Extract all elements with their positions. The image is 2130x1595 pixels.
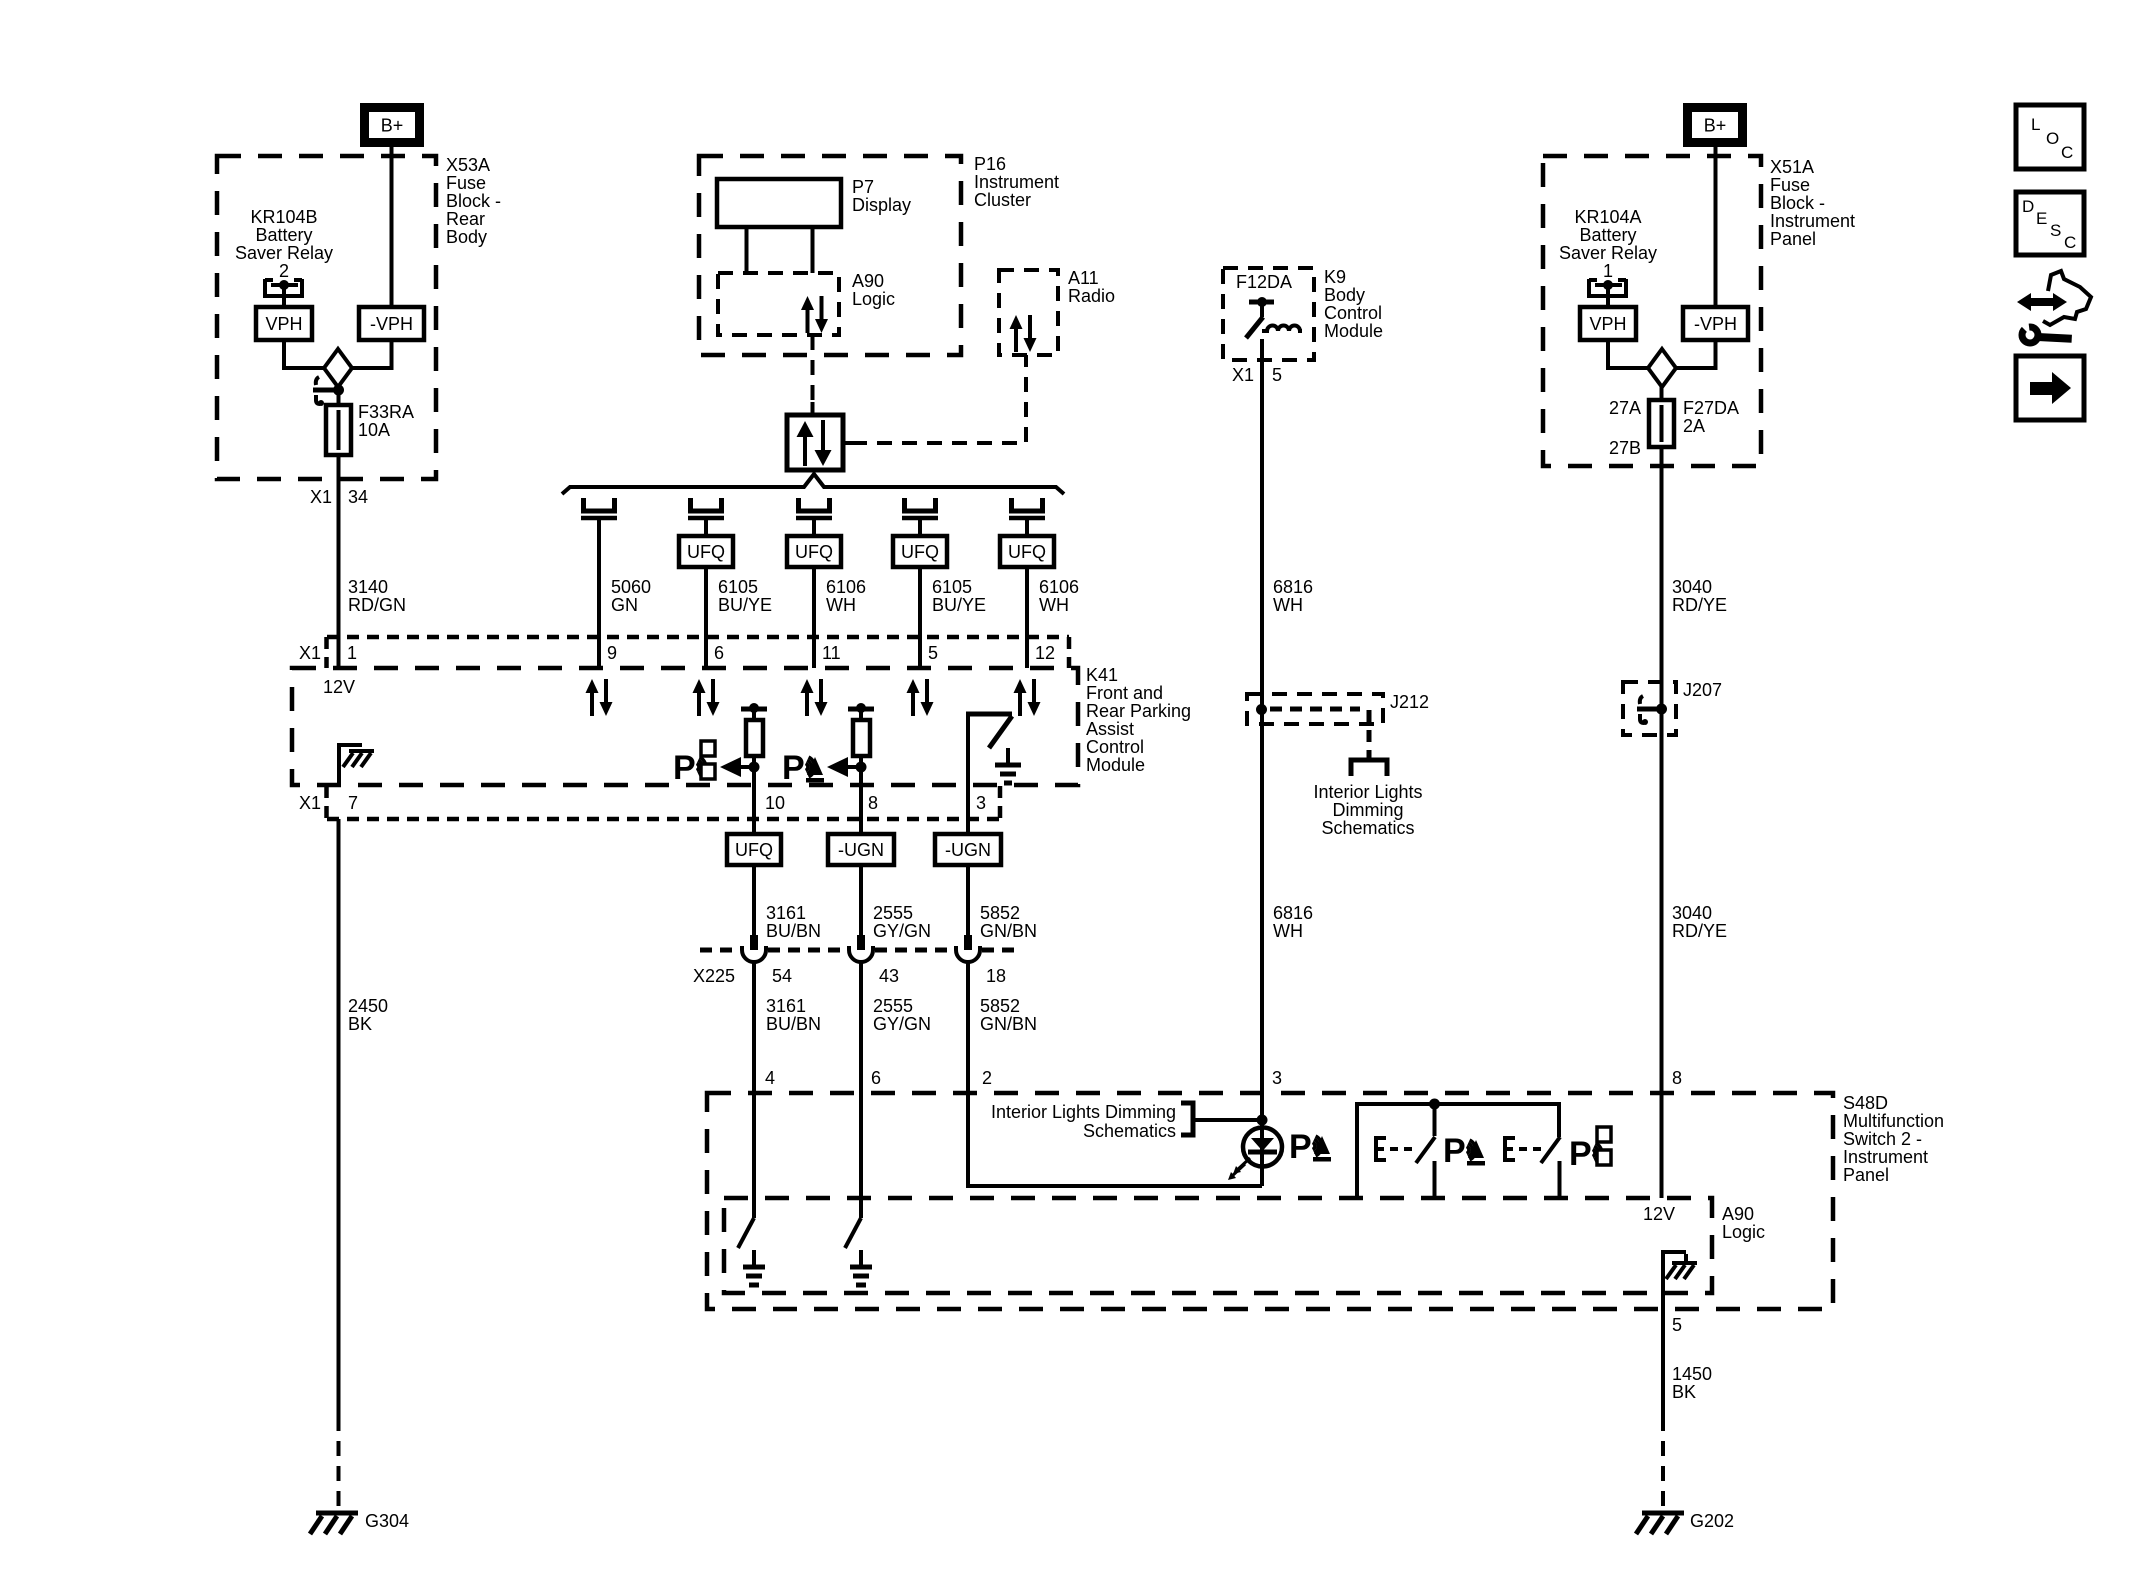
ground G202	[1642, 1511, 1684, 1516]
internal ground wire K41 pin 7	[339, 745, 362, 786]
serial arrows in K41 below pin at x=599	[590, 690, 594, 716]
svg-text:2555: 2555	[873, 903, 913, 923]
twisted-pair box UFQ (top row 1)	[679, 536, 733, 567]
svg-text:54: 54	[772, 966, 792, 986]
svg-text:UFQ: UFQ	[1008, 542, 1046, 562]
svg-text:Control: Control	[1086, 737, 1144, 757]
svg-text:UFQ: UFQ	[901, 542, 939, 562]
svg-text:P: P	[1443, 1132, 1466, 1170]
svg-text:A11: A11	[1068, 268, 1099, 288]
LED light arrows	[1236, 1158, 1250, 1171]
wire X225-43 to S48D pin 6	[859, 961, 863, 1093]
wire VPH to diamond (left)	[284, 340, 324, 368]
svg-text:WH: WH	[1273, 921, 1303, 941]
wire B+ to -VPH (left)	[390, 142, 394, 307]
body control module K9 dashed box F12DA	[1223, 268, 1314, 360]
display P7 box	[717, 179, 841, 227]
svg-text:F33RA: F33RA	[358, 402, 414, 422]
svg-text:Rear: Rear	[446, 209, 485, 229]
icon box LOC	[2016, 105, 2084, 169]
chassis ground symbol in S48D A90	[1684, 1254, 1688, 1262]
logic block A90 dashed box (in P16)	[718, 273, 839, 335]
svg-text:-UGN: -UGN	[945, 840, 991, 860]
icon box DESC	[2016, 192, 2084, 255]
svg-text:10A: 10A	[358, 420, 390, 440]
svg-text:Instrument: Instrument	[1843, 1147, 1928, 1167]
svg-text:BU/BN: BU/BN	[766, 1014, 821, 1034]
svg-text:9: 9	[607, 643, 617, 663]
svg-text:K9: K9	[1324, 267, 1346, 287]
svg-text:X51A: X51A	[1770, 157, 1814, 177]
svg-text:RD/YE: RD/YE	[1672, 921, 1727, 941]
relay contact box VPH (left)	[256, 307, 312, 340]
svg-text:F27DA: F27DA	[1683, 398, 1739, 418]
svg-text:34: 34	[348, 487, 368, 507]
svg-text:-VPH: -VPH	[370, 314, 413, 334]
serial arrows in K41 below pin at x=920	[911, 690, 915, 716]
sensor resistor branch 2 (K41)	[848, 707, 874, 712]
serial arrows in K41 below pin at x=1027	[1018, 690, 1022, 716]
svg-text:3161: 3161	[766, 903, 806, 923]
svg-text:8: 8	[868, 793, 878, 813]
wire VPH to diamond (right)	[1608, 340, 1648, 368]
fuse F27DA 2A	[1660, 400, 1664, 466]
svg-text:L: L	[2031, 115, 2040, 134]
svg-text:J212: J212	[1390, 692, 1429, 712]
svg-text:2555: 2555	[873, 996, 913, 1016]
bus drop connector above pin 5	[905, 498, 936, 511]
svg-text:6816: 6816	[1273, 577, 1313, 597]
serial arrows in K41 below pin at x=814	[805, 690, 809, 716]
svg-text:Logic: Logic	[1722, 1222, 1765, 1242]
svg-text:18: 18	[986, 966, 1006, 986]
svg-text:Panel: Panel	[1843, 1165, 1889, 1185]
signal arrow to rear sensors	[827, 757, 848, 777]
wire UFQ to K41 pin	[704, 567, 708, 668]
svg-text:BU/YE: BU/YE	[932, 595, 986, 615]
svg-text:Saver Relay: Saver Relay	[1559, 243, 1657, 263]
svg-text:S48D: S48D	[1843, 1093, 1888, 1113]
fuse F33RA 10A	[337, 405, 341, 480]
svg-text:KR104B: KR104B	[250, 207, 317, 227]
svg-text:Fuse: Fuse	[1770, 175, 1810, 195]
svg-text:Multifunction: Multifunction	[1843, 1111, 1944, 1131]
twisted-pair box UFQ (top row 2)	[787, 536, 841, 567]
switch cell 2 (park assist, squares)	[1541, 1137, 1560, 1163]
svg-text:P: P	[673, 749, 696, 787]
circuit breaker F12DA symbol	[1249, 300, 1274, 305]
diamond junction (left fuse block)	[324, 349, 352, 387]
svg-text:7: 7	[348, 793, 358, 813]
svg-text:Cluster: Cluster	[974, 190, 1031, 210]
svg-text:3: 3	[976, 793, 986, 813]
svg-text:Control: Control	[1324, 303, 1382, 323]
svg-text:Radio: Radio	[1068, 286, 1115, 306]
disable switch branch (K41 pin 3)	[966, 712, 1012, 717]
svg-text:F12DA: F12DA	[1236, 272, 1292, 292]
svg-text:Battery: Battery	[255, 225, 312, 245]
power terminal B+ (right)	[1688, 108, 1743, 143]
svg-text:6105: 6105	[718, 577, 758, 597]
svg-text:27B: 27B	[1609, 438, 1641, 458]
ground G304	[316, 1511, 358, 1516]
svg-text:J207: J207	[1683, 680, 1722, 700]
svg-text:2A: 2A	[1683, 416, 1705, 436]
relay coil KR104B	[265, 279, 302, 296]
svg-text:-UGN: -UGN	[838, 840, 884, 860]
svg-text:1: 1	[347, 643, 357, 663]
svg-text:10: 10	[765, 793, 785, 813]
wire -VPH to diamond (left)	[352, 340, 392, 368]
dashed branch from J212	[1367, 710, 1372, 752]
svg-text:Body: Body	[1324, 285, 1365, 305]
off-page fork to Interior Lights Dimming Schematics	[1367, 750, 1372, 761]
wire UFQ to X225	[752, 865, 756, 935]
svg-text:Dimming: Dimming	[1332, 800, 1403, 820]
wire drop to UFQ (pin 6)	[704, 519, 708, 536]
svg-text:1: 1	[1603, 261, 1613, 281]
svg-text:X225: X225	[693, 966, 735, 986]
inline connector X225 pin 18	[964, 935, 972, 950]
wire pin8 to -UGN a	[859, 786, 863, 834]
radio A11 dashed box	[999, 270, 1058, 355]
svg-text:D: D	[2022, 197, 2034, 216]
svg-text:Panel: Panel	[1770, 229, 1816, 249]
svg-text:K41: K41	[1086, 665, 1118, 685]
svg-text:KR104A: KR104A	[1574, 207, 1641, 227]
connector band X1 (K41 top)	[327, 635, 1069, 640]
wire 6816 WH upper	[1260, 360, 1264, 709]
svg-text:BU/BN: BU/BN	[766, 921, 821, 941]
wire 1450 BK	[1661, 1309, 1665, 1416]
switch cell 1 (park assist disable, triangle)	[1433, 1104, 1437, 1136]
dashed wire to G304	[337, 1416, 341, 1513]
svg-text:P: P	[1289, 1128, 1312, 1166]
wire 3140 RD/GN	[337, 455, 341, 668]
svg-text:6816: 6816	[1273, 903, 1313, 923]
svg-text:2: 2	[279, 261, 289, 281]
svg-text:X1: X1	[299, 643, 321, 663]
svg-text:Module: Module	[1324, 321, 1383, 341]
wire drop to UFQ (pin 5)	[918, 519, 922, 536]
svg-text:VPH: VPH	[1589, 314, 1626, 334]
wire drop to UFQ (pin 11)	[812, 519, 816, 536]
svg-text:C: C	[2061, 143, 2073, 162]
inline connector X225 pin 54	[750, 935, 758, 950]
connector X225 dashed link	[700, 948, 740, 953]
serial data arrows in A11	[1014, 326, 1018, 352]
connector band X1 (K41 bottom)	[327, 817, 1000, 822]
instrument cluster P16 dashed box	[699, 156, 961, 355]
wire diamond to fuse F27DA	[1660, 385, 1664, 401]
logic block A90 dashed box (in S48D)	[724, 1198, 1712, 1293]
twisted-pair box UFQ (bottom)	[727, 834, 781, 865]
wire callout to LED junction	[1193, 1118, 1262, 1122]
chassis ground symbol in K41	[349, 749, 374, 753]
svg-text:GN/BN: GN/BN	[980, 1014, 1037, 1034]
svg-text:6: 6	[871, 1068, 881, 1088]
svg-text:27A: 27A	[1609, 398, 1641, 418]
svg-text:X53A: X53A	[446, 155, 490, 175]
power terminal B+ (left)	[365, 108, 420, 143]
svg-text:P7: P7	[852, 177, 874, 197]
svg-text:A90: A90	[1722, 1204, 1754, 1224]
svg-text:Schematics: Schematics	[1321, 818, 1414, 838]
svg-text:Assist: Assist	[1086, 719, 1134, 739]
splice junction dot J212	[1256, 704, 1267, 715]
svg-text:WH: WH	[826, 595, 856, 615]
svg-text:2450: 2450	[348, 996, 388, 1016]
serial data interface box	[787, 415, 843, 470]
svg-text:Body: Body	[446, 227, 487, 247]
svg-text:GY/GN: GY/GN	[873, 921, 931, 941]
wire B+ to -VPH (right)	[1714, 142, 1718, 307]
svg-text:A90: A90	[852, 271, 884, 291]
svg-text:12V: 12V	[1643, 1204, 1675, 1224]
svg-text:3161: 3161	[766, 996, 806, 1016]
svg-text:Instrument: Instrument	[974, 172, 1059, 192]
relay contact box VPH (right)	[1580, 307, 1636, 340]
svg-text:Fuse: Fuse	[446, 173, 486, 193]
svg-text:Interior Lights: Interior Lights	[1313, 782, 1422, 802]
dashed data wire interface to A11	[843, 441, 852, 445]
wire UFQ to K41 pin	[812, 567, 816, 668]
svg-text:X1: X1	[310, 487, 332, 507]
svg-text:X1: X1	[299, 793, 321, 813]
serial data arrows in A90	[806, 307, 810, 333]
data bus brace line	[562, 474, 1064, 494]
wire 3040 RD/YE lower	[1660, 710, 1664, 1198]
serial data arrows in interface box	[803, 434, 807, 466]
svg-text:6106: 6106	[1039, 577, 1079, 597]
bus drop connector above pin 11	[799, 498, 830, 511]
svg-text:Block -: Block -	[1770, 193, 1825, 213]
svg-text:5: 5	[928, 643, 938, 663]
parking assist module K41 dashed box	[292, 668, 1078, 785]
bus drop connector above pin 6	[691, 498, 722, 511]
svg-text:Front and: Front and	[1086, 683, 1163, 703]
wire LED to pin 2 branch	[968, 1093, 1262, 1186]
svg-text:GN/BN: GN/BN	[980, 921, 1037, 941]
wire UFQ to K41 pin	[918, 567, 922, 668]
relay contact box -VPH (right)	[1683, 307, 1748, 340]
svg-text:RD/YE: RD/YE	[1672, 595, 1727, 615]
icon box forward arrow	[2016, 356, 2084, 420]
switch rail (S48D)	[1357, 1104, 1559, 1198]
wire pin10 to UFQ	[752, 786, 756, 834]
wire P7 to A90 logic (pin a)	[745, 227, 749, 273]
sensor resistor branch 1 (K41)	[741, 707, 767, 712]
svg-text:Interior Lights Dimming: Interior Lights Dimming	[991, 1102, 1176, 1122]
svg-text:2: 2	[982, 1068, 992, 1088]
diamond junction (right fuse block)	[1648, 349, 1676, 387]
svg-text:12V: 12V	[323, 677, 355, 697]
icon harness routing (arrow + wrench)	[2028, 298, 2056, 306]
wire P7 to A90 logic (pin b)	[811, 227, 815, 273]
svg-text:BK: BK	[1672, 1382, 1696, 1402]
svg-text:4: 4	[765, 1068, 775, 1088]
switch to ground pin 4 (in A90)	[752, 1093, 756, 1218]
switch to ground pin 6 (in A90)	[859, 1093, 863, 1218]
svg-text:Rear Parking: Rear Parking	[1086, 701, 1191, 721]
svg-text:3040: 3040	[1672, 903, 1712, 923]
svg-text:B+: B+	[1704, 116, 1727, 136]
fuse block X53A dashed box	[217, 156, 436, 479]
switch blade (K41)	[989, 716, 1012, 748]
svg-text:11: 11	[822, 643, 841, 663]
wire drop to UFQ (pin 12)	[1025, 519, 1029, 536]
svg-text:GY/GN: GY/GN	[873, 1014, 931, 1034]
svg-text:Logic: Logic	[852, 289, 895, 309]
svg-text:WH: WH	[1273, 595, 1303, 615]
svg-text:-VPH: -VPH	[1694, 314, 1737, 334]
svg-text:5852: 5852	[980, 996, 1020, 1016]
svg-text:3140: 3140	[348, 577, 388, 597]
wire 2450 BK	[337, 819, 341, 1416]
svg-text:12: 12	[1035, 643, 1055, 663]
bus drop connector above pin 12	[1012, 498, 1043, 511]
twisted box -UGN a	[828, 834, 894, 865]
svg-text:6105: 6105	[932, 577, 972, 597]
svg-text:5060: 5060	[611, 577, 651, 597]
earth ground in K41	[1006, 748, 1010, 763]
svg-text:3040: 3040	[1672, 577, 1712, 597]
wire -VPH to diamond (right)	[1676, 340, 1716, 368]
wire pin3 to -UGN b	[966, 786, 970, 834]
svg-text:6106: 6106	[826, 577, 866, 597]
svg-text:Saver Relay: Saver Relay	[235, 243, 333, 263]
splice J207 dashed box	[1623, 682, 1676, 735]
svg-text:E: E	[2036, 209, 2047, 228]
svg-text:WH: WH	[1039, 595, 1069, 615]
svg-text:O: O	[2046, 129, 2059, 148]
svg-text:43: 43	[879, 966, 899, 986]
wire 5060 GN drop	[597, 519, 601, 668]
wire 3040 RD/YE upper	[1660, 447, 1664, 709]
svg-text:UFQ: UFQ	[687, 542, 725, 562]
svg-text:Switch 2 -: Switch 2 -	[1843, 1129, 1922, 1149]
svg-text:Schematics: Schematics	[1083, 1121, 1176, 1141]
svg-text:RD/GN: RD/GN	[348, 595, 406, 615]
LED backlight indicator (S48D)	[1260, 1093, 1264, 1128]
signal arrow to front sensors	[720, 757, 741, 777]
svg-text:G202: G202	[1690, 1511, 1734, 1531]
svg-text:Battery: Battery	[1579, 225, 1636, 245]
svg-text:5: 5	[1672, 1315, 1682, 1335]
internal ground wire S48D pin 5	[1663, 1252, 1686, 1309]
svg-text:Module: Module	[1086, 755, 1145, 775]
svg-text:5852: 5852	[980, 903, 1020, 923]
svg-text:Block -: Block -	[446, 191, 501, 211]
svg-text:UFQ: UFQ	[795, 542, 833, 562]
wire diamond to fuse F33RA	[337, 385, 341, 406]
fuse block X51A dashed box	[1543, 156, 1761, 466]
inline connector X225 pin 43	[857, 935, 865, 950]
bus drop connector above pin 9	[584, 498, 615, 511]
splice junction dot J207	[1640, 696, 1643, 704]
wire -UGNb to X225	[966, 865, 970, 935]
svg-text:Display: Display	[852, 195, 911, 215]
svg-text:BK: BK	[348, 1014, 372, 1034]
svg-text:S: S	[2050, 221, 2061, 240]
splice J212 dashed box	[1247, 694, 1383, 724]
svg-text:P: P	[1569, 1135, 1592, 1173]
svg-text:P16: P16	[974, 154, 1006, 174]
wire X225-18 to S48D pin 2	[966, 961, 970, 1093]
svg-text:BU/YE: BU/YE	[718, 595, 772, 615]
twisted box -UGN b	[935, 834, 1001, 865]
svg-text:UFQ: UFQ	[735, 840, 773, 860]
svg-text:B+: B+	[381, 116, 404, 136]
wire X225-54 to S48D pin 4	[752, 961, 756, 1093]
serial arrows in K41 below pin at x=706	[697, 690, 701, 716]
twisted-pair box UFQ (top row 4)	[1000, 536, 1054, 567]
svg-text:3: 3	[1272, 1068, 1282, 1088]
svg-text:GN: GN	[611, 595, 638, 615]
svg-text:P: P	[782, 749, 805, 787]
wire UFQ to K41 pin	[1025, 567, 1029, 668]
splice with crimp symbol at F33RA feed	[316, 377, 319, 385]
svg-text:6: 6	[714, 643, 724, 663]
svg-text:8: 8	[1672, 1068, 1682, 1088]
dashed wire to G202	[1661, 1416, 1665, 1513]
svg-text:VPH: VPH	[265, 314, 302, 334]
svg-text:Instrument: Instrument	[1770, 211, 1855, 231]
svg-text:C: C	[2064, 233, 2076, 252]
relay coil KR104A	[1589, 279, 1626, 296]
svg-text:X1: X1	[1232, 365, 1254, 385]
dashed data wire A90 to interface	[811, 335, 815, 415]
multifunction switch S48D dashed box	[707, 1093, 1833, 1309]
svg-text:G304: G304	[365, 1511, 409, 1531]
wire 6816 WH lower	[1260, 710, 1264, 1121]
wire -UGNa to X225	[859, 865, 863, 935]
svg-text:1450: 1450	[1672, 1364, 1712, 1384]
svg-text:5: 5	[1272, 365, 1282, 385]
twisted-pair box UFQ (top row 3)	[893, 536, 947, 567]
relay contact box -VPH (left)	[359, 307, 424, 340]
